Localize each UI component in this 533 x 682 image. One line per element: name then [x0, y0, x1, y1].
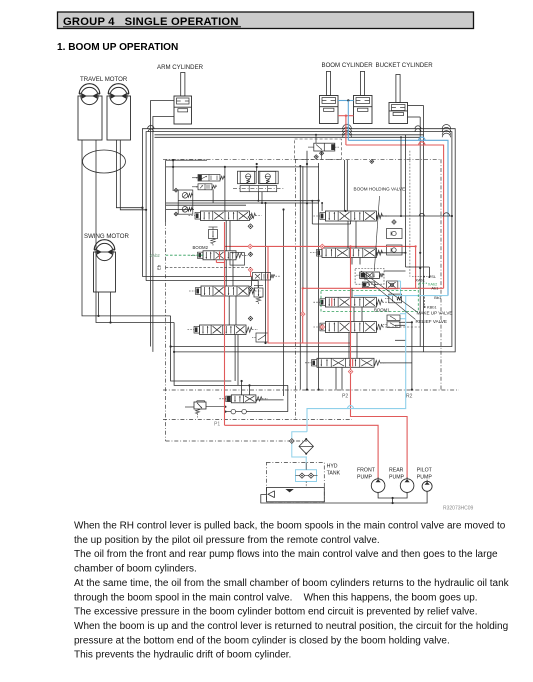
mcv bottom border low	[166, 440, 307, 442]
mcv top border	[163, 158, 441, 160]
mcv mid partition	[294, 159, 296, 419]
wire swing port 2	[110, 292, 112, 323]
travel motor RH body	[107, 96, 131, 140]
svg-text:R32073HC09: R32073HC09	[443, 506, 474, 512]
svg-text:1. BOOM UP OPERATION: 1. BOOM UP OPERATION	[57, 42, 178, 53]
wire bucket right top	[408, 105, 424, 107]
svg-text:This prevents the hydraulic dr: This prevents the hydraulic drift of boo…	[74, 650, 291, 661]
svg-text:Ab1: Ab1	[431, 285, 438, 290]
arm cylinder	[174, 96, 192, 124]
relief valve right	[389, 294, 402, 303]
check pair right bot	[387, 245, 403, 255]
wire rc v3	[351, 258, 353, 265]
spool5	[317, 358, 374, 367]
svg-text:XAb1: XAb1	[415, 278, 425, 283]
svg-text:BUCKET CYLINDER: BUCKET CYLINDER	[376, 62, 434, 69]
svg-text:P1: P1	[214, 422, 220, 428]
wire left drop pair 2	[174, 323, 288, 386]
svg-text:KBb1: KBb1	[427, 304, 437, 309]
swing aux valve	[256, 333, 268, 342]
wire center v5	[302, 166, 304, 288]
pump suction mid	[393, 491, 428, 503]
wire rc v7	[341, 367, 343, 390]
hop rc stub1	[419, 213, 424, 216]
wire left return B	[287, 385, 289, 411]
tank filters	[299, 473, 304, 478]
travel RH wrap	[311, 201, 313, 224]
svg-text:PILOT: PILOT	[417, 468, 433, 474]
wire top line 2	[146, 132, 452, 347]
center joint	[83, 150, 126, 173]
negative control valve box	[295, 139, 342, 159]
junction swing	[97, 315, 99, 317]
tank strainer	[268, 491, 275, 498]
svg-text:The oil from the front and rea: The oil from the front and rear pump flo…	[74, 549, 498, 560]
wire rc stub2	[376, 252, 405, 254]
diamond j4	[248, 252, 252, 256]
port relief pair box	[178, 190, 193, 214]
bucket spool	[322, 248, 376, 258]
wire top line 3	[155, 134, 424, 136]
pilot pump	[422, 481, 432, 491]
blue boom rod link	[338, 100, 354, 102]
svg-text:TRAVEL MOTOR: TRAVEL MOTOR	[80, 76, 128, 83]
blue hop 1	[419, 137, 425, 140]
header underline	[63, 26, 241, 28]
relief mid	[254, 288, 263, 297]
red drop	[345, 116, 347, 145]
cyan filter drop	[305, 457, 307, 470]
wire bucket drop outer	[423, 106, 425, 352]
red gallery drops	[415, 246, 417, 288]
wire arm port A	[151, 101, 174, 347]
leader relief	[364, 277, 416, 320]
cyan hop	[348, 406, 354, 409]
wire lc v1	[225, 221, 227, 251]
wire left drop pair	[171, 316, 232, 381]
mcv bottom border P2	[163, 389, 459, 391]
svg-text:When the RH control lever is p: When the RH control lever is pulled back…	[74, 521, 506, 532]
wire rc stub3	[384, 270, 406, 272]
mcv bottom border P1	[163, 419, 352, 421]
red v268	[268, 246, 351, 343]
feed vertical	[224, 167, 226, 211]
wire arm port B	[153, 117, 174, 352]
travel spool RH	[325, 211, 376, 221]
green boom1 box	[321, 291, 418, 312]
svg-text:pressure at the bottom end of: pressure at the bottom end of the boom c…	[74, 635, 450, 646]
rear pump	[400, 479, 414, 493]
svg-text:PUMP: PUMP	[389, 475, 405, 481]
wire R2 drop	[411, 322, 413, 389]
svg-text:At the same time, the oil from: At the same time, the oil from the small…	[74, 578, 510, 589]
check pair right top	[387, 229, 403, 239]
svg-text:chamber of boom cylinders.: chamber of boom cylinders.	[74, 564, 197, 575]
wire arm1 feed B	[146, 281, 258, 288]
cyan tank box	[296, 470, 317, 482]
swing motor body	[94, 252, 116, 292]
mcv right border	[440, 159, 442, 390]
wire travelL port 2	[96, 140, 174, 323]
wire rc v4	[351, 288, 353, 297]
wire lc h1	[166, 209, 194, 211]
wire travelR port 2	[120, 140, 146, 210]
travel motor RH	[110, 87, 127, 104]
travel motor LH body	[78, 96, 102, 140]
green XAb2 left	[166, 254, 203, 256]
wire rc v6	[356, 333, 358, 359]
svg-text:BOOM1: BOOM1	[374, 307, 390, 312]
wire rc stub5	[380, 362, 412, 364]
boom2 spool	[203, 251, 236, 260]
travel motor LH	[81, 87, 98, 104]
mcv left border	[165, 160, 167, 222]
cyan filter loop	[292, 432, 307, 457]
main relief valve	[194, 402, 206, 409]
junction bottom left	[170, 345, 172, 347]
rcv spool row	[240, 186, 277, 192]
rcv dashdot	[233, 188, 284, 190]
red boom bottom link	[338, 115, 354, 117]
green XAb2 right	[419, 282, 427, 284]
wire lc v3	[228, 296, 230, 325]
negative control valve	[314, 143, 335, 151]
wire lc h2	[166, 202, 319, 204]
wire arm1 feed A	[142, 277, 251, 287]
red diamond 4	[300, 312, 305, 317]
svg-text:ARM CYLINDER: ARM CYLINDER	[157, 64, 204, 71]
wire rc v5	[353, 307, 355, 322]
boom cylinder 2	[354, 96, 373, 124]
red diamond 2	[248, 267, 253, 272]
leader make up	[361, 271, 417, 312]
tank level	[285, 489, 293, 492]
rcv unit 1	[240, 171, 256, 183]
red Ab1 line	[303, 287, 444, 289]
rcv unit 2	[260, 171, 276, 183]
straight travel checks	[231, 409, 236, 414]
arm2 spool	[325, 322, 376, 333]
wire top line 4	[155, 136, 421, 138]
wire lc v2	[225, 260, 227, 286]
red diamond 3	[320, 244, 325, 249]
red dot a	[415, 245, 417, 247]
remote control valve box	[238, 171, 255, 184]
junction dots	[306, 202, 308, 204]
filter	[299, 439, 313, 454]
svg-text:BOOM HOLDING VALVE: BOOM HOLDING VALVE	[354, 187, 406, 192]
relief lower box 1	[387, 315, 400, 321]
red P1 run	[225, 425, 379, 478]
svg-text:Eb: Eb	[157, 264, 162, 270]
swing motor	[96, 243, 113, 260]
arm1 aux valve	[253, 273, 271, 281]
hop t2	[148, 129, 153, 132]
solenoid valve top	[198, 175, 220, 182]
tank suction	[261, 495, 393, 503]
svg-text:REAR: REAR	[389, 468, 404, 474]
svg-text:the up position by the pilot o: the up position by the pilot oil pressur…	[74, 535, 380, 546]
svg-text:BOOM CYLINDER: BOOM CYLINDER	[322, 62, 374, 69]
red P1 drop	[224, 222, 226, 425]
port relief 2	[182, 207, 188, 213]
mcv corner solid	[166, 159, 207, 161]
wire center v2	[318, 163, 320, 390]
swing spool	[200, 325, 247, 335]
front pump	[371, 479, 385, 493]
hop t4	[343, 133, 352, 137]
cyan Bb line	[354, 295, 448, 297]
wire travelR port 1	[116, 140, 142, 208]
cyan R2 drop	[307, 296, 406, 432]
rcv feed line	[256, 167, 258, 171]
main relief top	[209, 230, 218, 239]
port relief 1	[182, 193, 188, 199]
boom1 spool	[325, 297, 376, 307]
wire center v3	[283, 210, 285, 397]
arm1 spool	[201, 286, 249, 296]
pump suction	[378, 492, 407, 498]
red diamond 1	[248, 244, 253, 249]
wire rc v1	[344, 160, 346, 211]
svg-text:The excessive pressure in the: The excessive pressure in the boom cylin…	[74, 607, 478, 618]
red v302	[302, 288, 304, 343]
leader boom holding	[374, 196, 379, 271]
psl dashed line	[409, 151, 411, 277]
red P2 run	[351, 391, 408, 479]
Eb dashed	[166, 266, 251, 268]
wire lc v4	[234, 335, 236, 382]
wire rc stub1	[376, 215, 452, 217]
wire v173	[172, 160, 174, 191]
tank body	[267, 487, 325, 501]
wire rc v2	[347, 221, 349, 248]
svg-text:through the boom spool in the: through the boom spool in the main contr…	[74, 592, 478, 603]
travel spool LH	[201, 211, 250, 221]
svg-text:RELIEF VALVE: RELIEF VALVE	[416, 319, 448, 324]
wire v401	[400, 137, 402, 216]
header bar	[58, 12, 474, 29]
svg-text:PUMP: PUMP	[357, 475, 373, 481]
rcv drops	[257, 192, 259, 201]
svg-text:P2: P2	[342, 394, 348, 400]
svg-text:XAb2: XAb2	[150, 253, 161, 258]
straight travel valve	[231, 395, 256, 403]
wire swing port 1	[98, 292, 100, 316]
svg-text:BOOM2: BOOM2	[193, 245, 209, 250]
relief lower box 2	[387, 322, 400, 328]
svg-text:When the boom is up and the co: When the boom is up and the control leve…	[74, 621, 508, 632]
red diamond 6	[348, 369, 353, 374]
svg-text:MAKE UP VALVE: MAKE UP VALVE	[417, 310, 453, 315]
red boom2 section	[215, 260, 217, 263]
red gallery	[225, 245, 416, 247]
blue drop	[347, 101, 349, 141]
svg-text:TANK: TANK	[327, 471, 341, 477]
cyan relief link	[400, 318, 406, 320]
wire center v1	[306, 151, 308, 390]
svg-text:Bb1: Bb1	[434, 295, 441, 300]
hop t3	[343, 130, 352, 134]
solenoid valve 2	[198, 184, 212, 190]
red diamond 5	[320, 325, 325, 330]
negative control diamonds	[320, 151, 324, 155]
junction pump	[392, 497, 394, 499]
filter bypass check	[289, 439, 294, 444]
svg-text:PUMP: PUMP	[417, 475, 433, 481]
boom holding valve	[360, 272, 380, 279]
wire bucket drop inner	[419, 117, 421, 347]
wire lc h3	[178, 200, 319, 202]
wire bucket right bot	[408, 116, 421, 118]
svg-text:GROUP 4 SINGLE OPERATION: GROUP 4 SINGLE OPERATION	[63, 16, 239, 28]
svg-text:R2: R2	[406, 394, 413, 400]
dash KBb1	[424, 297, 426, 307]
svg-text:SWING MOTOR: SWING MOTOR	[84, 233, 130, 240]
wire top line 1	[142, 129, 455, 352]
svg-text:FRONT: FRONT	[357, 468, 376, 474]
diamond j3	[392, 220, 396, 224]
tank border	[267, 462, 325, 501]
red hop 1	[419, 142, 425, 145]
red P2 drop	[350, 246, 352, 390]
hop t1	[148, 126, 154, 129]
diamond j1	[248, 224, 253, 229]
diamond j2	[248, 215, 253, 220]
boom cylinder 1	[320, 96, 339, 124]
boom holding check	[362, 282, 375, 288]
red top run	[346, 145, 444, 288]
boom holding box	[355, 269, 384, 285]
wire lc h5	[166, 204, 246, 206]
wire center v4	[299, 166, 301, 390]
wire center v0	[265, 203, 267, 343]
wire rc stub4	[388, 326, 420, 328]
wire left return A	[241, 381, 243, 395]
blue top run	[348, 140, 448, 295]
svg-text:HYD: HYD	[327, 464, 338, 470]
wire travelL port 1	[82, 140, 171, 316]
bucket cylinder	[389, 103, 408, 124]
make up valve	[387, 281, 398, 289]
tank filter drop	[305, 462, 307, 469]
